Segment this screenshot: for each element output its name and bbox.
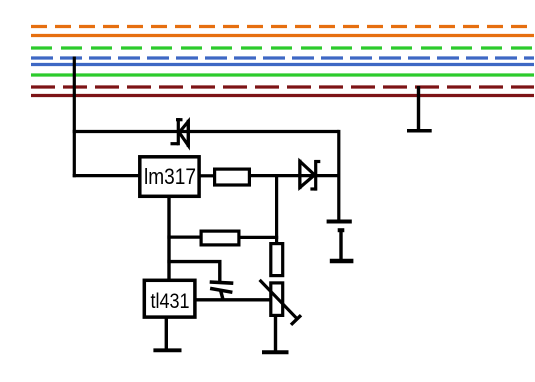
svg-text:lm317: lm317: [144, 164, 196, 189]
svg-text:tl431: tl431: [151, 290, 190, 313]
wire input drop from blue dashed bus: [73, 57, 76, 178]
ground bar under R4: [262, 350, 289, 354]
wire tl431 anode lead: [165, 317, 168, 350]
potentiometer R4 wiper tick: [291, 315, 301, 325]
wire lm317 output: [199, 174, 214, 177]
net green dashed bus: [31, 46, 534, 49]
wire lm317 input: [73, 174, 139, 177]
terminator bar T1: [407, 129, 432, 133]
shunt U2 tl431 body: [144, 280, 195, 317]
wire sense drop to R3: [275, 174, 278, 244]
wire adj to R2: [167, 236, 201, 239]
wire tl431 ref to pot: [195, 298, 271, 301]
wire lm317 adj lead down: [167, 197, 170, 281]
capacitor C2 top plate: [327, 220, 352, 224]
resistor R3: [271, 244, 283, 276]
net maroon dashed bus: [31, 85, 534, 88]
zener diode D2: [300, 160, 320, 191]
regulator U1 lm317 body: [140, 157, 199, 197]
net orange solid bus: [31, 34, 534, 37]
wire R2 to sense node: [239, 236, 278, 239]
capacitor C1 top plate: [210, 282, 234, 283]
net blue solid bus: [31, 63, 534, 66]
wire right drop to output cap: [337, 130, 340, 221]
wire C2 lower lead: [339, 230, 342, 260]
net VCC orange dashed bus: [31, 25, 534, 28]
wire adj to C1 top: [167, 262, 219, 282]
wire R1 to D2 to right rail: [250, 174, 339, 177]
zener diode D1: [171, 118, 189, 147]
wire top feedback rail: [73, 130, 339, 133]
capacitor C1 bottom plate: [210, 288, 232, 292]
net blue dashed bus: [31, 56, 534, 59]
potentiometer R4 wiper stroke: [260, 280, 299, 320]
ground bar under tl431: [153, 348, 181, 352]
net green solid bus: [31, 73, 534, 76]
resistor R2: [201, 231, 239, 245]
ground bar under C2: [330, 259, 354, 263]
wire R4 bottom lead: [274, 315, 277, 351]
wire stub from maroon dashed bus: [417, 86, 420, 132]
resistor R1: [215, 169, 250, 185]
potentiometer R4 body: [271, 283, 283, 316]
net maroon solid bus: [31, 94, 534, 97]
wire C1 lower lead: [221, 291, 223, 300]
capacitor C2 bottom plate: [338, 228, 345, 232]
